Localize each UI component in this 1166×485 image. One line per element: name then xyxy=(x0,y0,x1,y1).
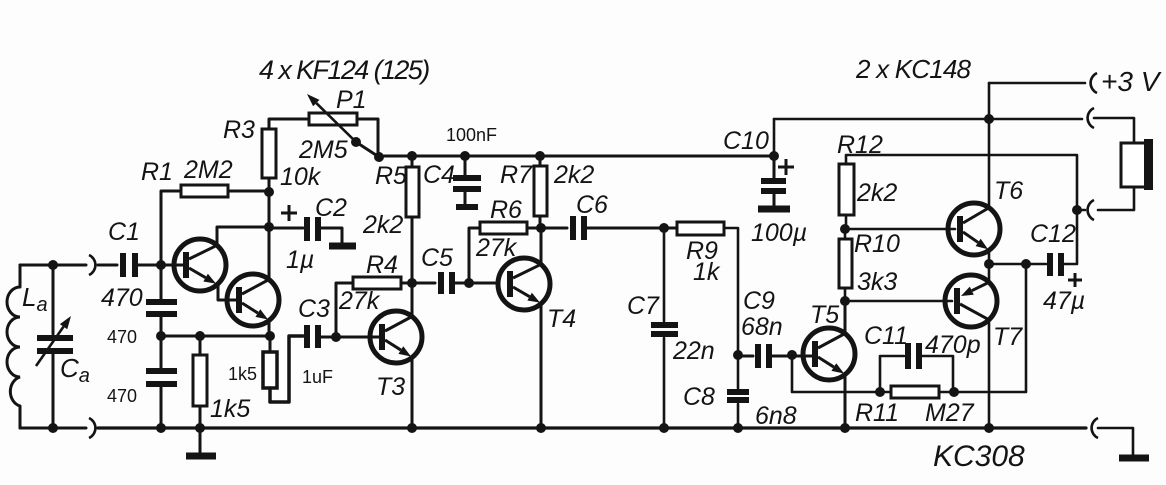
wire node to C6 xyxy=(541,227,567,230)
arrow of Ca xyxy=(36,327,64,366)
resistor R1 xyxy=(181,185,228,197)
wire C6 right xyxy=(587,227,677,230)
node supply/T6 collector xyxy=(984,114,994,124)
wire +3V riser xyxy=(988,83,991,119)
wire T5 collector up xyxy=(844,301,847,334)
arrow of P1 xyxy=(316,103,356,142)
wire P1 right down xyxy=(357,119,378,156)
svg-text:C5: C5 xyxy=(421,244,453,272)
wire R3 top to P1 xyxy=(269,119,309,129)
svg-text:C12: C12 xyxy=(1030,220,1076,248)
wire 1k5#1 top xyxy=(199,336,202,355)
resistor R4 xyxy=(353,277,401,289)
wire T1 collector up xyxy=(217,227,269,245)
resistor R10 xyxy=(839,239,852,288)
wire 1k5#2 top xyxy=(269,336,272,352)
wire R7 top xyxy=(539,156,542,166)
node rail R5 xyxy=(407,151,417,161)
wire cap to ground rail xyxy=(160,387,163,428)
node 1k5#1 top xyxy=(195,331,205,341)
node T5 rail xyxy=(840,423,850,433)
node T2 emitter xyxy=(265,331,275,341)
svg-text:1uF: 1uF xyxy=(302,367,333,387)
wire C10 up xyxy=(773,119,776,156)
wire T2 emitter down xyxy=(268,320,271,336)
svg-text:2k2: 2k2 xyxy=(856,179,897,207)
wire T4 collector up xyxy=(540,228,543,264)
wire 1k5#1 bottom xyxy=(199,406,202,428)
node T4 rail xyxy=(536,423,546,433)
transistor T6 xyxy=(948,203,1000,255)
transistor T4 xyxy=(498,258,550,310)
svg-text:C11: C11 xyxy=(864,322,908,350)
wire T6 emitter down xyxy=(988,250,991,264)
svg-text:10k: 10k xyxy=(280,163,322,191)
capacitor 470 lower xyxy=(146,368,177,374)
svg-text:T4: T4 xyxy=(547,305,576,333)
connector antenna bottom xyxy=(89,418,95,438)
wire R5 bottom xyxy=(411,217,414,283)
node C8 rail xyxy=(733,423,743,433)
capacitor C4 xyxy=(464,156,467,175)
wire base to R11 xyxy=(792,355,891,392)
ground bar C10 xyxy=(758,206,790,213)
wire T5 emitter down xyxy=(844,374,847,428)
wire R10 top xyxy=(844,229,847,239)
wire R6 right xyxy=(527,227,541,230)
svg-text:2k2: 2k2 xyxy=(362,211,403,239)
wire connector to C1 xyxy=(98,264,117,267)
wire speaker bottom xyxy=(1098,187,1134,210)
svg-text:22n: 22n xyxy=(672,337,715,365)
ground bar C2 xyxy=(329,243,356,250)
plus of C12 xyxy=(1068,279,1082,282)
connector +3V xyxy=(1091,73,1097,93)
wire T3 collector up xyxy=(411,283,414,317)
svg-text:3k3: 3k3 xyxy=(857,268,897,296)
wire node to speaker connector xyxy=(1077,209,1085,212)
node output junction xyxy=(984,259,994,269)
svg-text:2M2: 2M2 xyxy=(183,156,233,184)
inductor La (antenna coil) xyxy=(19,265,22,287)
wire R4 node to C5 xyxy=(412,282,435,285)
ground bar C4 xyxy=(456,204,478,210)
node tank top xyxy=(48,260,58,270)
node C3/T3 base xyxy=(331,332,341,342)
svg-text:2 x KC148: 2 x KC148 xyxy=(855,54,972,84)
node R11 left xyxy=(875,387,885,397)
ground rail xyxy=(98,426,1086,429)
svg-text:1k5: 1k5 xyxy=(228,364,257,384)
resistor R12 xyxy=(839,164,854,215)
wire C11 left bracket xyxy=(880,356,904,392)
connector antenna top xyxy=(89,255,95,275)
wire C3 node up to R4 xyxy=(336,283,353,337)
svg-text:R7: R7 xyxy=(500,161,533,189)
wire R7 bottom xyxy=(539,217,542,228)
node C12 tap xyxy=(1021,259,1031,269)
svg-text:470: 470 xyxy=(107,327,137,347)
node mid caps xyxy=(156,331,166,341)
wire node down to cap xyxy=(160,265,163,299)
transistor T3 xyxy=(370,311,422,363)
svg-text:100nF: 100nF xyxy=(446,125,497,145)
wire between caps xyxy=(160,317,163,368)
capacitor C6 xyxy=(570,216,576,240)
svg-text:4 x KF124 (125): 4 x KF124 (125) xyxy=(259,55,429,85)
capacitor C1 xyxy=(120,253,126,277)
svg-text:C7: C7 xyxy=(627,292,660,320)
node tank bottom xyxy=(48,423,58,433)
resistor R9 xyxy=(677,222,724,235)
svg-text:T6: T6 xyxy=(994,177,1023,205)
wire R10 bottom xyxy=(844,288,847,301)
node 1k5#1 rail xyxy=(195,423,205,433)
transistor T1 xyxy=(174,239,226,291)
svg-text:68n: 68n xyxy=(741,313,783,341)
svg-text:KC308: KC308 xyxy=(933,440,1025,473)
wire wiper to rail xyxy=(356,142,379,157)
transistor T5 xyxy=(803,328,855,380)
wire R1 right xyxy=(228,190,269,193)
svg-text:R5: R5 xyxy=(375,162,407,190)
node R11 right xyxy=(949,387,959,397)
plus of C2 xyxy=(281,212,297,215)
capacitor C5 xyxy=(438,272,444,294)
node T3 rail xyxy=(407,423,417,433)
svg-text:T7: T7 xyxy=(993,323,1023,351)
svg-text:P1: P1 xyxy=(336,86,367,114)
wire C3 right xyxy=(321,336,336,339)
capacitor C3 xyxy=(304,325,310,348)
capacitor C12 xyxy=(1047,253,1053,276)
wire 1k5#2 staircase to C3 xyxy=(270,336,303,402)
wire C12 right up xyxy=(1064,210,1077,264)
capacitor C9 xyxy=(755,344,761,368)
node T5 base xyxy=(787,350,797,360)
svg-text:+3 V: +3 V xyxy=(1101,66,1162,97)
node R7/R6/C6/T4 xyxy=(536,223,546,233)
svg-text:R3: R3 xyxy=(223,116,255,144)
wire T7 base xyxy=(845,300,952,303)
node C7 rail xyxy=(659,423,669,433)
wire C1 to T1 base xyxy=(138,264,184,267)
wire speaker top xyxy=(1094,118,1134,143)
svg-text:47µ: 47µ xyxy=(1043,287,1085,315)
node rail P1 xyxy=(374,152,384,162)
wire to right ground xyxy=(1098,428,1133,455)
capacitor C2 xyxy=(304,217,310,241)
node C10 xyxy=(769,151,779,161)
wire R1 left drop xyxy=(161,191,181,265)
wire C2 right xyxy=(321,228,342,243)
wire top-left tank xyxy=(20,264,86,267)
wire node to C9 xyxy=(738,355,753,358)
node speaker feed xyxy=(1072,205,1082,215)
ground symbol right xyxy=(1119,455,1149,462)
svg-text:T3: T3 xyxy=(376,373,405,401)
wire T7 collector down xyxy=(988,320,991,428)
resistor 1k5 first xyxy=(193,355,207,406)
wire C9 right xyxy=(772,355,812,358)
capacitor C8 xyxy=(737,355,740,388)
node P1 wiper xyxy=(351,137,361,147)
wire C5 right xyxy=(455,282,497,285)
wire R9 right down xyxy=(724,228,738,355)
wire R3 bottom xyxy=(268,178,271,227)
connector speaker bottom xyxy=(1088,200,1094,220)
connector ground right xyxy=(1092,418,1098,438)
svg-text:1k5: 1k5 xyxy=(210,395,250,423)
resistor R7 xyxy=(534,166,547,216)
wire main rail xyxy=(379,155,774,158)
connector speaker top xyxy=(1088,108,1094,128)
wire T6 base xyxy=(845,228,955,231)
node T1/T2/C2/R3 xyxy=(264,222,274,232)
svg-text:27k: 27k xyxy=(338,287,381,315)
svg-text:C4: C4 xyxy=(423,161,455,189)
potentiometer P1 xyxy=(309,113,357,125)
wire T1 emitter to T2 base xyxy=(218,285,236,300)
svg-text:M27: M27 xyxy=(925,399,975,427)
wire node to C2 xyxy=(269,227,303,230)
node C6/R9/C7 xyxy=(659,223,669,233)
capacitor 470 upper xyxy=(146,299,177,305)
svg-text:1k: 1k xyxy=(693,258,721,286)
wire T3 base xyxy=(336,336,379,339)
svg-text:R1: R1 xyxy=(141,158,173,186)
svg-text:R10: R10 xyxy=(854,230,900,258)
svg-text:C3: C3 xyxy=(298,295,330,323)
wire R5 top xyxy=(411,156,414,167)
wire bottom-left tank xyxy=(20,427,86,430)
wire top supply line xyxy=(774,118,1082,121)
resistor R3 xyxy=(262,129,276,178)
svg-text:R6: R6 xyxy=(490,196,522,224)
wire C11 right bracket xyxy=(922,356,953,392)
wire T4 emitter down xyxy=(540,304,543,428)
capacitor C10 xyxy=(773,156,776,178)
node rail C4 xyxy=(460,151,470,161)
node on rail x161 xyxy=(156,423,166,433)
ground symbol main xyxy=(199,428,202,453)
wire T3 emitter down xyxy=(411,357,414,428)
wire R12 top to output xyxy=(846,155,1077,210)
wire to +3V xyxy=(989,82,1085,85)
svg-text:2k2: 2k2 xyxy=(553,161,594,189)
svg-text:27k: 27k xyxy=(475,234,518,262)
svg-text:2M5: 2M5 xyxy=(298,136,348,164)
svg-text:470: 470 xyxy=(107,386,137,406)
resistor R6 xyxy=(480,222,527,234)
node T7 rail xyxy=(984,423,994,433)
wire R4 right xyxy=(401,282,412,285)
wire T2 collector up xyxy=(268,227,271,280)
wire node up to R6 xyxy=(469,228,480,283)
svg-text:C1: C1 xyxy=(108,218,140,246)
node R9/C8/C9 xyxy=(733,350,743,360)
svg-text:C8: C8 xyxy=(683,383,715,411)
resistor R5 xyxy=(406,167,419,217)
transistor T2 xyxy=(227,274,279,326)
capacitor C11 xyxy=(905,343,911,369)
resistor R11 xyxy=(891,386,939,398)
node C5/R6/T4 base xyxy=(464,278,474,288)
wire emitter row xyxy=(161,335,270,338)
svg-text:R11: R11 xyxy=(855,399,899,427)
capacitor C7 xyxy=(663,228,666,321)
svg-text:R4: R4 xyxy=(366,251,398,279)
node R4/R5/C5 xyxy=(407,278,417,288)
wire output to C12 xyxy=(989,263,1046,266)
svg-text:470: 470 xyxy=(101,284,143,312)
wire T7 emitter up xyxy=(988,264,991,282)
plus of C10 xyxy=(778,166,794,169)
node R1/R3 xyxy=(264,187,274,197)
svg-text:C6: C6 xyxy=(576,191,608,219)
svg-text:6n8: 6n8 xyxy=(755,402,797,430)
wire T6 collector up xyxy=(988,119,991,208)
wire R12 bottom xyxy=(845,215,848,229)
svg-text:1µ: 1µ xyxy=(286,246,314,274)
speaker LS xyxy=(1121,143,1146,187)
node T5 collector xyxy=(840,296,850,306)
wire R11 right to output xyxy=(939,264,1026,392)
node R12/R10/T6 base xyxy=(840,224,850,234)
node rail R7 xyxy=(535,151,545,161)
svg-text:T5: T5 xyxy=(810,301,839,329)
svg-text:C9: C9 xyxy=(743,287,775,315)
svg-text:100µ: 100µ xyxy=(751,219,807,247)
node C1/T1 base xyxy=(156,260,166,270)
resistor 1k5 second xyxy=(263,352,277,388)
svg-text:C10: C10 xyxy=(723,127,769,155)
transistor T7 xyxy=(945,275,997,327)
variable capacitor Ca xyxy=(52,265,55,334)
